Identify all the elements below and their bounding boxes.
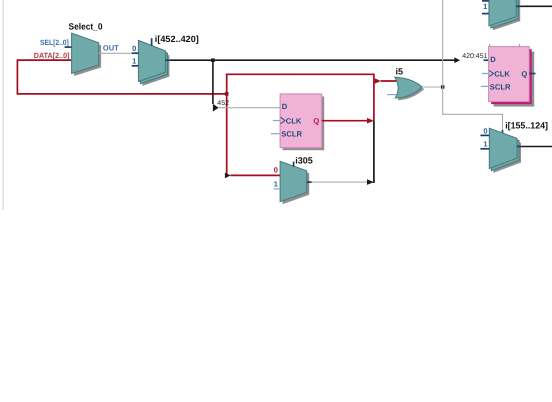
svg-text:i[452..420]: i[452..420]	[155, 34, 199, 44]
svg-text:Select_0: Select_0	[69, 22, 103, 32]
wire i5 output up	[442, 0, 444, 87]
clock wedge	[281, 117, 285, 123]
CLK stub	[482, 73, 489, 75]
svg-text:DATA[2..0]: DATA[2..0]	[34, 51, 70, 60]
junction dot (bus)	[211, 58, 215, 62]
svg-text:420:451: 420:451	[462, 53, 487, 60]
junction dot i5 output	[441, 85, 444, 88]
select tick mux i[155..124]	[502, 130, 504, 135]
wire i[155..124] output	[522, 146, 552, 148]
wire: black bus i[452..420]	[171, 59, 455, 61]
wire: red DATA feedback net	[17, 60, 398, 175]
top ticks	[489, 44, 491, 47]
svg-text:1: 1	[274, 179, 278, 188]
svg-text:452: 452	[217, 100, 229, 107]
output stub (i155)	[517, 146, 522, 148]
svg-text:0: 0	[132, 44, 136, 53]
svg-text:1: 1	[132, 57, 136, 66]
arrow i305 output into trunk (black)	[367, 179, 374, 185]
wire Q (red)	[322, 120, 367, 122]
svg-text:Q: Q	[521, 69, 527, 78]
stub into right FF D	[484, 59, 489, 61]
svg-text:SCLR: SCLR	[281, 129, 302, 138]
arrow tap 452	[213, 104, 219, 112]
wire tap 452 to left FF D	[219, 107, 280, 109]
wire OUT to mux i[452..420]	[99, 52, 132, 54]
Q output stub	[529, 73, 535, 75]
select tick	[151, 38, 153, 45]
select tick	[293, 162, 295, 167]
wire i5 output	[422, 86, 443, 88]
i5 lower input stub	[387, 94, 397, 96]
mux i[452..420]	[138, 34, 198, 86]
svg-text:0: 0	[274, 166, 278, 175]
svg-text:D: D	[282, 102, 288, 111]
mux top right	[489, 0, 520, 30]
arrow into i305 input 0 (black)	[225, 173, 231, 179]
arrow Q into trunk (red)	[367, 118, 374, 124]
arrow into i5 input (red)	[375, 78, 381, 84]
svg-text:CLK: CLK	[286, 116, 302, 125]
wire top mux output	[521, 5, 552, 7]
input stub SEL[2..0]	[65, 46, 72, 48]
wire i5 output to mux select	[443, 87, 503, 132]
output stub	[165, 59, 171, 61]
mux i305	[280, 155, 313, 204]
mux Select_0	[69, 22, 103, 77]
dff left (flip-flop)	[271, 94, 324, 150]
svg-text:CLK: CLK	[494, 69, 510, 78]
SCLR stub	[271, 133, 280, 135]
mux i[155..124]	[489, 120, 548, 173]
input stub 0 (top mux)	[482, 0, 489, 2]
wire i305 output (gray)	[312, 181, 367, 183]
junction dot (red net)	[225, 92, 229, 96]
svg-text:OUT: OUT	[103, 44, 119, 53]
output stub (top mux)	[516, 5, 521, 7]
svg-text:D: D	[490, 55, 496, 64]
tap 452 vertical wire	[212, 60, 214, 104]
svg-text:i305: i305	[295, 155, 313, 165]
trunk black segment	[373, 121, 375, 183]
dff right (selected)	[481, 44, 536, 107]
CLK stub	[273, 120, 280, 122]
output stub i305	[307, 181, 312, 183]
panel divider	[3, 0, 4, 210]
svg-text:1: 1	[483, 2, 487, 11]
svg-text:0: 0	[483, 126, 487, 135]
svg-text:SCLR: SCLR	[490, 82, 511, 91]
svg-text:Q: Q	[313, 117, 319, 126]
svg-text:i[155..124]: i[155..124]	[505, 120, 548, 130]
clock wedge	[489, 70, 493, 76]
svg-text:SEL[2..0]: SEL[2..0]	[40, 38, 69, 47]
svg-text:i5: i5	[396, 67, 404, 77]
svg-text:1: 1	[483, 140, 487, 149]
SCLR stub	[481, 85, 489, 87]
or gate i5	[395, 67, 425, 101]
bit-range arrow 420:451	[454, 57, 460, 63]
